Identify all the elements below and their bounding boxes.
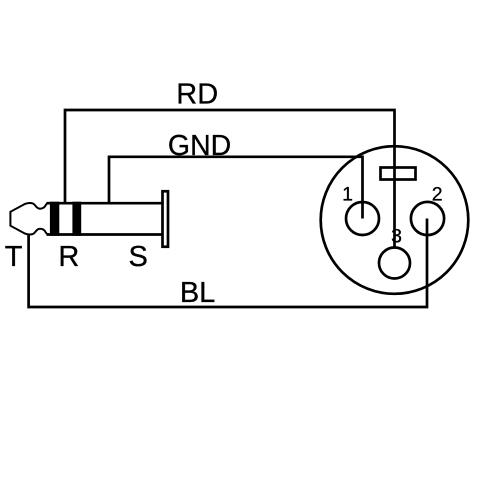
plug insulator band 1 <box>50 202 59 236</box>
XLR pin 1 circle <box>346 202 379 235</box>
TRS plug tip <box>10 203 48 235</box>
wire GND (sleeve to XLR pin 1) <box>109 157 363 219</box>
svg-text:GND: GND <box>168 130 231 162</box>
svg-text:RD: RD <box>176 78 218 110</box>
svg-text:S: S <box>129 241 148 273</box>
wire BL (tip to XLR pin 2) <box>29 219 427 308</box>
TRS plug body (sleeve) <box>47 203 162 234</box>
plug insulator band 2 <box>72 202 81 236</box>
svg-text:T: T <box>5 241 23 273</box>
svg-text:1: 1 <box>342 184 353 206</box>
svg-text:2: 2 <box>432 184 443 206</box>
svg-text:3: 3 <box>391 226 402 248</box>
XLR pin 3 circle <box>379 248 410 279</box>
plug flange <box>163 191 169 247</box>
XLR latch notch rectangle <box>381 168 416 180</box>
svg-text:BL: BL <box>180 277 215 309</box>
wire RD (ring to XLR pin 3) <box>65 110 395 247</box>
XLR shell circle <box>321 146 469 294</box>
XLR pin 2 circle <box>411 202 444 235</box>
svg-text:R: R <box>58 241 79 273</box>
